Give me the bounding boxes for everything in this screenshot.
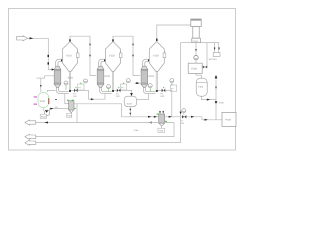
wire product line right segment <box>77 122 174 124</box>
junction node unit1 <box>69 90 71 92</box>
pipe V102 bottom outlet <box>112 72 114 92</box>
wire discharge unit2 <box>114 90 131 93</box>
nozzle dot V103 inlet <box>148 60 150 62</box>
instrument LT102 <box>108 88 110 91</box>
vessel V103 <box>149 42 164 72</box>
instrument FT102 <box>126 79 130 83</box>
node inlet b (magenta) <box>34 104 37 105</box>
svg-text:V101: V101 <box>66 54 72 57</box>
arrowhead to P106 box <box>205 119 208 121</box>
arrowhead on feed line <box>30 37 34 39</box>
pipe V103 bottom outlet <box>156 72 158 92</box>
junction node unit3 <box>156 90 158 92</box>
wire product line to headers <box>74 104 222 120</box>
wire header1 connector <box>173 123 175 138</box>
arrowhead cw a <box>214 47 215 49</box>
pipe elbow E102 to V102 <box>100 60 106 66</box>
svg-text:WCT001: WCT001 <box>209 58 218 61</box>
wire vapor line V103 to condenser <box>157 25 191 42</box>
pipe elbow E101 to V101 <box>57 60 63 66</box>
feed stream arrow IN <box>17 36 28 41</box>
arrowhead cw b <box>218 47 219 49</box>
arrowhead product exit <box>44 122 48 124</box>
arrowhead bottom line a <box>148 116 151 118</box>
positioner box FY102 <box>120 84 126 90</box>
pump box P106 <box>222 112 236 126</box>
arrowhead product line left <box>148 122 151 124</box>
nozzle dot V101 inlet <box>61 60 63 62</box>
wire discharge unit3 <box>158 90 172 116</box>
pipe V101 bottom outlet <box>69 72 71 92</box>
vessel V101 <box>63 42 78 72</box>
arrowhead V106 outlet <box>207 99 210 101</box>
header1 stream arrow OUT <box>25 134 36 139</box>
level gauge V103 <box>163 51 165 53</box>
seal tank V106 <box>196 78 207 96</box>
pipe U-bend E101 outlet <box>58 87 69 92</box>
valve on riser right <box>215 101 217 103</box>
arrowhead feed into E101 <box>52 68 55 70</box>
controller box E105 <box>188 63 202 73</box>
arrowhead condensate drop <box>195 49 197 51</box>
arrowhead into flash pot <box>130 93 133 96</box>
valve FV101 <box>74 89 78 93</box>
pipe V105 bottom to pump <box>42 108 44 110</box>
level mark V105 <box>48 98 49 104</box>
svg-text:V106: V106 <box>198 86 204 89</box>
svg-text:P105: P105 <box>219 101 225 104</box>
arrowhead riser right mid <box>215 87 217 89</box>
arrowhead drop 1a <box>89 44 91 46</box>
wire V106 outlet <box>201 96 216 99</box>
svg-text:P101: P101 <box>67 114 73 117</box>
arrowhead riser 3 <box>156 39 158 41</box>
valve FV102 <box>117 89 121 93</box>
svg-text:101: 101 <box>73 95 77 98</box>
nozzle dot V102 inlet <box>104 60 106 62</box>
svg-text:P102: P102 <box>41 116 47 119</box>
heat exchanger E102 <box>97 66 104 69</box>
condensate tank V105 (green) <box>38 93 49 108</box>
wire vapor line V101 to E102 <box>70 36 96 75</box>
svg-text:P104: P104 <box>134 129 140 132</box>
pump P103 on drop <box>194 55 198 59</box>
arrowhead bottom line a2 <box>154 116 157 118</box>
vessel V102 <box>106 42 121 72</box>
flash pot V104 <box>124 96 136 106</box>
arrowhead bottom line b <box>169 116 172 118</box>
wire riser right <box>215 76 217 120</box>
condenser C101 top section <box>191 19 201 27</box>
wire drain to header2 <box>180 43 182 143</box>
instrument LT101 <box>65 85 67 90</box>
node inlet a (magenta) <box>34 96 37 97</box>
junction node unit2 <box>112 90 114 92</box>
positioner box FY103 <box>170 85 176 91</box>
wire cooling water lines <box>200 43 219 53</box>
svg-text:V104: V104 <box>127 103 133 106</box>
filter F101 on bottom line <box>160 111 163 114</box>
level gauge V102 <box>120 51 122 53</box>
instrument LT103 <box>149 88 151 92</box>
arrowhead drop 2a <box>132 44 134 46</box>
wire condensate stub E103 <box>135 82 142 84</box>
arrowhead riser 1 <box>69 39 71 41</box>
wire vapor line V102 to E103 <box>113 36 140 75</box>
header2 stream arrow OUT <box>25 140 36 145</box>
level gauge V101 <box>77 51 79 53</box>
wire E105 to V106 <box>196 73 201 78</box>
wire discharge unit1 <box>71 90 105 99</box>
svg-text:P106: P106 <box>225 119 231 122</box>
cooling water unit box <box>213 53 220 57</box>
wire steam inlet E101 / condensate drop to V105 <box>37 76 56 92</box>
svg-text:E101: E101 <box>68 76 74 79</box>
positioner box FY101 <box>78 84 84 90</box>
wire U-bend drop to P101 <box>65 94 69 104</box>
wire condensate left drop <box>181 42 192 44</box>
wire condensate drop to E105 <box>195 43 197 64</box>
wire product exit branch <box>32 104 77 123</box>
wire pump discharge <box>50 109 69 112</box>
pipe U-bend E103 outlet <box>144 87 155 92</box>
svg-text:E102: E102 <box>105 75 111 78</box>
arrowhead riser 2 <box>112 39 114 41</box>
label box P101 <box>70 112 72 115</box>
wire drop to E105 valve <box>206 43 208 67</box>
svg-text:103: 103 <box>160 95 164 98</box>
label box F101 <box>158 128 165 132</box>
instrument FT104 <box>183 113 185 115</box>
pipe elbow E103 to V103 <box>144 60 150 66</box>
arrowhead pot drop b <box>129 113 131 115</box>
arrowhead drop 2b <box>132 55 134 57</box>
heat exchanger E101 <box>54 66 61 69</box>
svg-text:104: 104 <box>180 122 184 125</box>
pump/filter P101 <box>69 101 74 110</box>
svg-text:V103: V103 <box>153 54 159 57</box>
arrowhead condensate drop <box>40 85 42 87</box>
pipe flash pot bottom <box>129 107 131 117</box>
tick label near pump line <box>55 99 57 100</box>
pipe U-bend E102 outlet <box>101 87 112 92</box>
tick feed drop a <box>48 55 50 57</box>
condenser C101 body <box>193 27 199 39</box>
arrowhead bottom line c <box>191 116 194 118</box>
wire header 1 <box>32 136 174 138</box>
wire feed line top-left <box>27 38 54 69</box>
pump P102 <box>44 110 50 116</box>
instrument FT103 <box>170 79 174 83</box>
instrument FT101 <box>84 79 88 83</box>
arrowhead drop 1b <box>89 55 91 57</box>
svg-text:F101: F101 <box>159 130 165 133</box>
svg-text:V105: V105 <box>40 100 46 103</box>
valve FV103 <box>162 89 166 93</box>
arrowhead pot drop a <box>129 109 131 111</box>
svg-text:C101: C101 <box>193 40 199 43</box>
valve beside E105 <box>203 66 207 69</box>
wire transfer 2-3 <box>137 94 149 100</box>
svg-text:102: 102 <box>116 95 120 98</box>
wire header 2 <box>32 142 181 144</box>
svg-text:E103: E103 <box>149 75 155 78</box>
arrowhead drain down <box>180 112 182 115</box>
product stream arrow OUT <box>25 120 36 125</box>
arrowhead transfer 1-2 <box>91 98 94 100</box>
svg-text:E105: E105 <box>191 68 197 71</box>
arrowhead pump discharge <box>50 108 53 110</box>
border frame <box>9 9 236 151</box>
svg-text:V102: V102 <box>109 54 115 57</box>
heat exchanger E103 <box>141 66 148 69</box>
condenser C101 bottom section <box>192 38 201 42</box>
tick feed drop b <box>48 62 50 64</box>
valve FV104 <box>182 115 186 118</box>
arrowhead riser right up <box>215 75 218 79</box>
